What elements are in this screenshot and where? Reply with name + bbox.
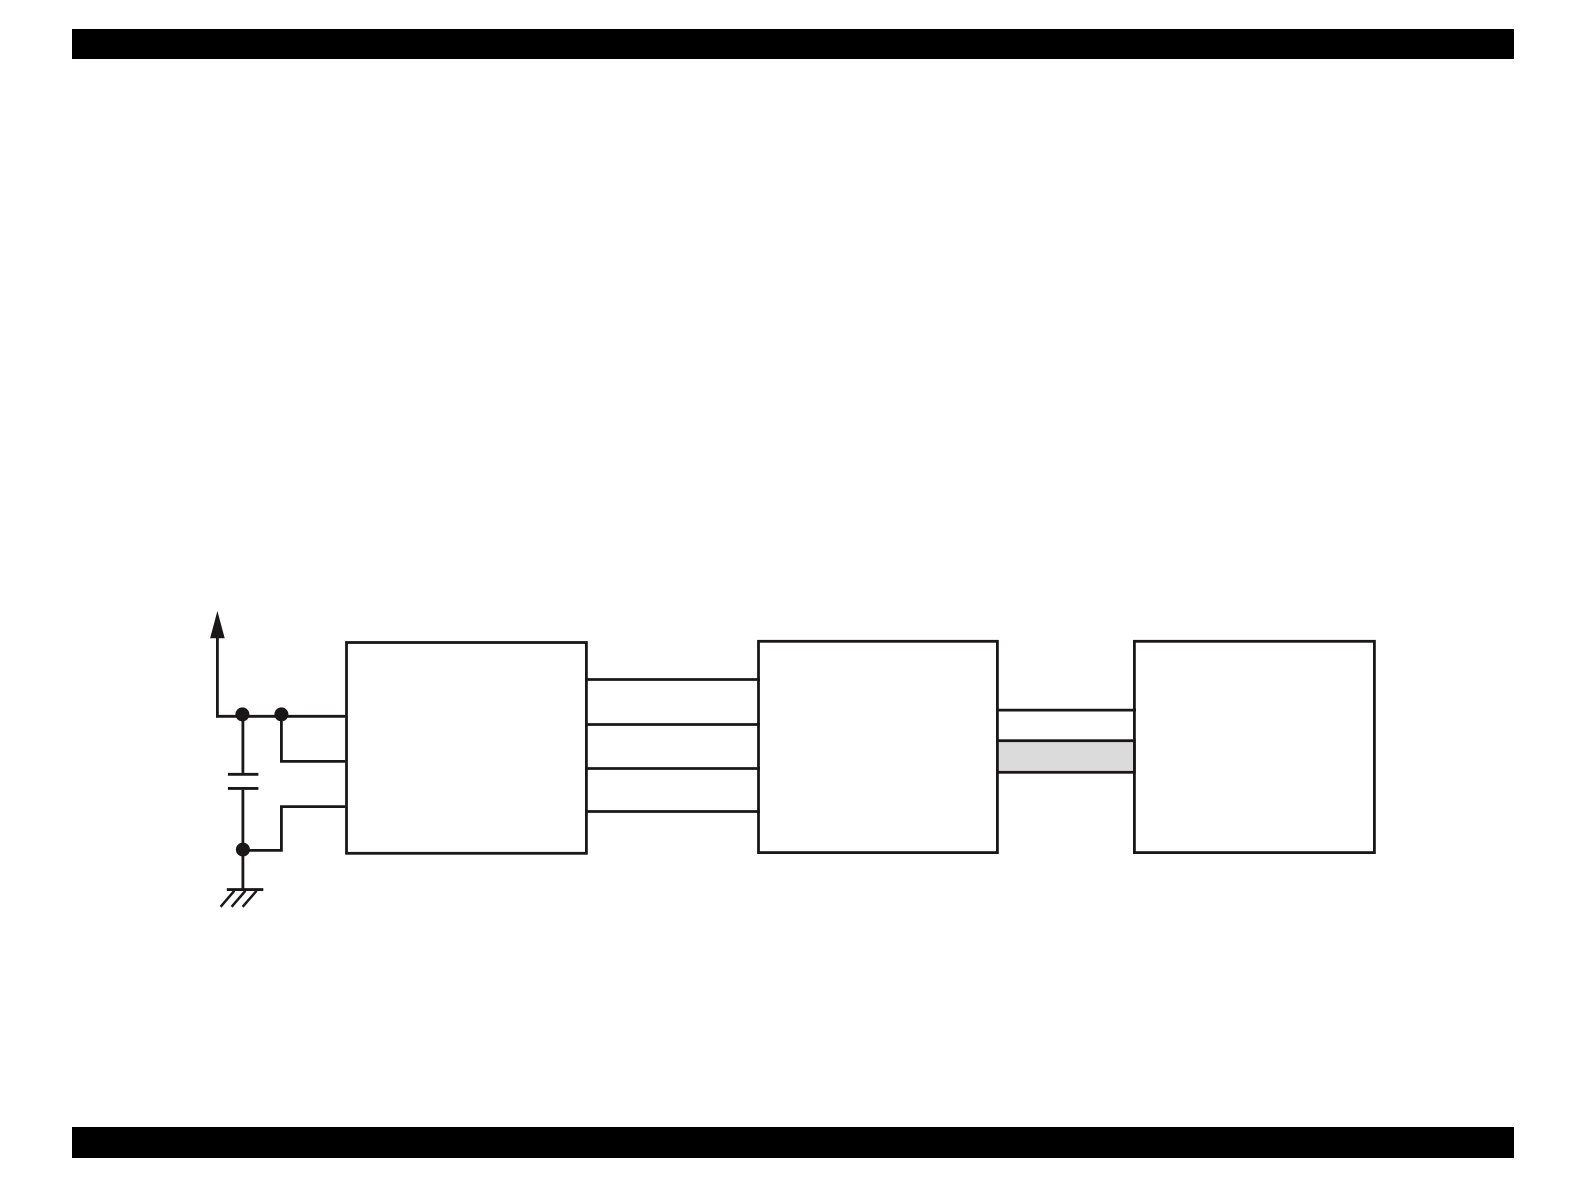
wire block1-block2 signal 2 bbox=[585, 723, 760, 726]
bus block2-block3 (gray band) bbox=[997, 741, 1134, 773]
wire Vcc rail bbox=[216, 715, 345, 718]
header bar bbox=[72, 29, 1514, 59]
node junction dot 3 (ground node) bbox=[236, 843, 250, 857]
block 1 bbox=[347, 643, 587, 854]
wire block1-block2 signal 3 bbox=[585, 767, 760, 770]
node junction dot 1 (capacitor top) bbox=[235, 707, 249, 721]
power supply arrow bbox=[210, 611, 225, 718]
wire block1-block2 signal 1 bbox=[585, 678, 760, 681]
wire ground rail to block1 pin 3 bbox=[243, 807, 345, 851]
wire from node 2 down to block1 pin 2 bbox=[281, 714, 345, 761]
ground bbox=[221, 850, 264, 906]
wire block2-block3 bbox=[996, 709, 1136, 712]
block 2 bbox=[759, 641, 998, 852]
wire block1-block2 signal 4 bbox=[585, 810, 760, 813]
node junction dot 2 (pin 2 tap) bbox=[274, 707, 288, 721]
capacitor C1 bbox=[228, 714, 259, 850]
block 3 bbox=[1134, 641, 1374, 852]
footer bar bbox=[72, 1127, 1514, 1158]
